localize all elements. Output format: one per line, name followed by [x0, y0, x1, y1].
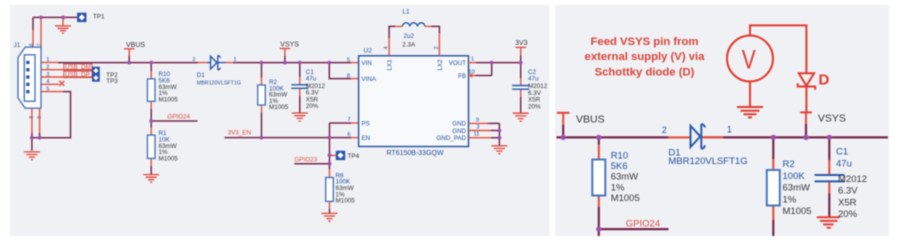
svg-text:M1005: M1005	[159, 156, 179, 163]
svg-text:6.3V: 6.3V	[838, 186, 858, 197]
svg-text:47u: 47u	[836, 158, 852, 169]
svg-text:47u: 47u	[528, 75, 539, 82]
svg-text:VSYS: VSYS	[280, 42, 299, 49]
svg-text:Feed VSYS pin from: Feed VSYS pin from	[591, 36, 699, 48]
svg-text:2: 2	[192, 57, 195, 63]
svg-text:100K: 100K	[783, 171, 806, 182]
svg-text:D1: D1	[197, 72, 206, 79]
svg-text:USB_DP: USB_DP	[65, 71, 90, 78]
svg-text:2u2: 2u2	[404, 33, 415, 40]
svg-text:VOUT: VOUT	[449, 60, 466, 67]
svg-text:2.3A: 2.3A	[402, 41, 416, 48]
svg-text:7: 7	[347, 117, 350, 123]
svg-text:GPIO24: GPIO24	[626, 218, 660, 229]
svg-text:M1005: M1005	[159, 97, 179, 104]
svg-text:63mW: 63mW	[783, 183, 810, 194]
svg-text:J1: J1	[14, 42, 21, 49]
svg-text:20%: 20%	[306, 103, 319, 110]
svg-text:7: 7	[37, 43, 43, 46]
svg-text:USB_DM: USB_DM	[65, 64, 91, 71]
svg-text:RT6150B-33GQW: RT6150B-33GQW	[387, 150, 444, 157]
svg-text:V: V	[742, 44, 756, 74]
svg-text:GND_PAD: GND_PAD	[437, 135, 467, 142]
svg-text:LX1: LX1	[386, 59, 393, 71]
svg-text:M1005: M1005	[269, 104, 289, 111]
svg-text:VIN: VIN	[362, 60, 372, 67]
svg-text:M1005: M1005	[783, 206, 812, 217]
svg-text:20%: 20%	[838, 209, 858, 220]
svg-text:MBR120VLSFT1G: MBR120VLSFT1G	[197, 80, 241, 86]
svg-text:63mW: 63mW	[611, 172, 638, 183]
svg-text:VBUS: VBUS	[126, 42, 145, 49]
svg-text:GPIO23: GPIO23	[294, 157, 317, 164]
svg-text:1%: 1%	[783, 194, 797, 205]
svg-text:3V3: 3V3	[515, 40, 528, 47]
svg-text:6: 6	[29, 43, 35, 46]
svg-text:VINA: VINA	[362, 76, 377, 83]
svg-text:M1005: M1005	[611, 193, 640, 204]
svg-text:1: 1	[727, 125, 732, 135]
svg-text:M2012: M2012	[838, 174, 867, 185]
svg-text:M1005: M1005	[336, 198, 356, 205]
svg-text:MBR120VLSFT1G: MBR120VLSFT1G	[668, 156, 747, 167]
svg-text:1: 1	[233, 57, 236, 63]
svg-text:VBUS: VBUS	[576, 113, 605, 125]
svg-text:EN: EN	[362, 135, 371, 142]
svg-text:5: 5	[347, 57, 350, 63]
svg-text:20%: 20%	[528, 104, 541, 111]
svg-text:D: D	[819, 72, 830, 89]
svg-text:VSYS: VSYS	[818, 113, 846, 125]
svg-text:TP3: TP3	[106, 78, 118, 85]
svg-text:2: 2	[662, 125, 667, 135]
svg-text:GPIO24: GPIO24	[167, 114, 190, 121]
svg-text:L1: L1	[403, 9, 411, 16]
svg-text:Schottky diode (D): Schottky diode (D)	[595, 66, 695, 78]
svg-text:R10: R10	[611, 150, 628, 161]
svg-text:FB: FB	[458, 73, 466, 80]
svg-text:LX2: LX2	[437, 59, 444, 71]
svg-text:GND: GND	[452, 121, 466, 128]
svg-text:1: 1	[471, 56, 474, 62]
svg-text:R2: R2	[783, 159, 795, 170]
svg-text:3V3_EN: 3V3_EN	[228, 129, 252, 136]
svg-text:TP4: TP4	[348, 153, 360, 160]
svg-text:8: 8	[347, 73, 350, 79]
svg-text:5K6: 5K6	[611, 161, 628, 172]
svg-text:TP1: TP1	[93, 14, 105, 21]
svg-text:47u: 47u	[306, 76, 317, 83]
svg-text:9: 9	[476, 117, 479, 123]
svg-text:PS: PS	[362, 120, 370, 127]
svg-text:1%: 1%	[611, 182, 625, 193]
svg-text:3: 3	[476, 125, 479, 131]
svg-text:11: 11	[473, 132, 479, 138]
svg-text:external supply (V) via: external supply (V) via	[585, 51, 706, 63]
svg-text:C1: C1	[836, 147, 848, 158]
svg-text:U2: U2	[364, 48, 373, 55]
svg-text:6: 6	[347, 132, 350, 138]
svg-text:GND: GND	[452, 128, 466, 135]
svg-text:X5R: X5R	[838, 197, 857, 208]
